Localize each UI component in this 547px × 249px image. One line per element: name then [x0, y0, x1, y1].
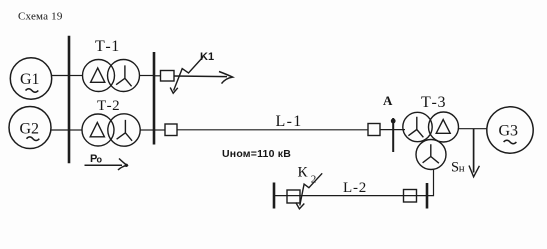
- svg-text:G1: G1: [20, 71, 40, 88]
- svg-text:L-1: L-1: [276, 113, 303, 130]
- wire T-2 to busbar2: [140, 129, 153, 131]
- node A: [383, 93, 396, 152]
- generator G2: [9, 107, 51, 149]
- wire busbar1 to T-2: [70, 129, 82, 131]
- svg-text:Схема 19: Схема 19: [18, 10, 63, 22]
- breaker 5: [404, 190, 417, 203]
- busbar tick left of L-2: [273, 183, 276, 209]
- svg-text:н: н: [459, 163, 465, 175]
- svg-text:Uном=110 кВ: Uном=110 кВ: [222, 148, 291, 160]
- svg-text:Т-2: Т-2: [97, 98, 120, 114]
- svg-text:Т-1: Т-1: [95, 38, 120, 55]
- breaker 4: [287, 190, 300, 203]
- load arrow Sн: [451, 129, 479, 177]
- svg-text:К: К: [298, 165, 309, 181]
- wire busbar2 to breaker 1: [155, 75, 161, 77]
- transformer T-1: [83, 38, 140, 92]
- breaker 1: [161, 71, 175, 82]
- Po arrow: [85, 159, 129, 171]
- generator G3: [487, 107, 533, 153]
- line L-2: [274, 195, 427, 197]
- svg-text:А: А: [383, 93, 393, 108]
- breaker 3: [368, 124, 380, 136]
- wire T-3 bottom down: [427, 170, 434, 196]
- feeder arrow line: [174, 72, 233, 84]
- wire busbar2 to breaker 2: [155, 129, 165, 131]
- wire T-1 to busbar2: [139, 75, 153, 77]
- line L-1: [177, 129, 368, 131]
- busbar tick right of L-2: [426, 183, 429, 209]
- busbar 1: [68, 36, 71, 164]
- busbar 2: [153, 52, 156, 145]
- wire G2 to busbar: [51, 129, 68, 131]
- svg-text:L-2: L-2: [343, 180, 367, 196]
- label Po: [90, 153, 103, 165]
- svg-text:G2: G2: [20, 121, 40, 138]
- fault K1: [170, 51, 214, 93]
- wire breaker3 to T-3: [380, 129, 405, 131]
- wire G1 to busbar: [52, 75, 69, 77]
- svg-text:G3: G3: [499, 123, 519, 140]
- breaker 2: [165, 124, 177, 136]
- wire T-3 to G3: [459, 128, 488, 130]
- transformer T-3: [403, 94, 459, 169]
- wire busbar1 to T-1: [70, 75, 83, 77]
- svg-text:о: о: [97, 155, 103, 165]
- svg-text:Т-3: Т-3: [421, 94, 446, 111]
- transformer T-2: [82, 98, 140, 146]
- generator G1: [10, 58, 51, 99]
- fault K2: [296, 165, 322, 209]
